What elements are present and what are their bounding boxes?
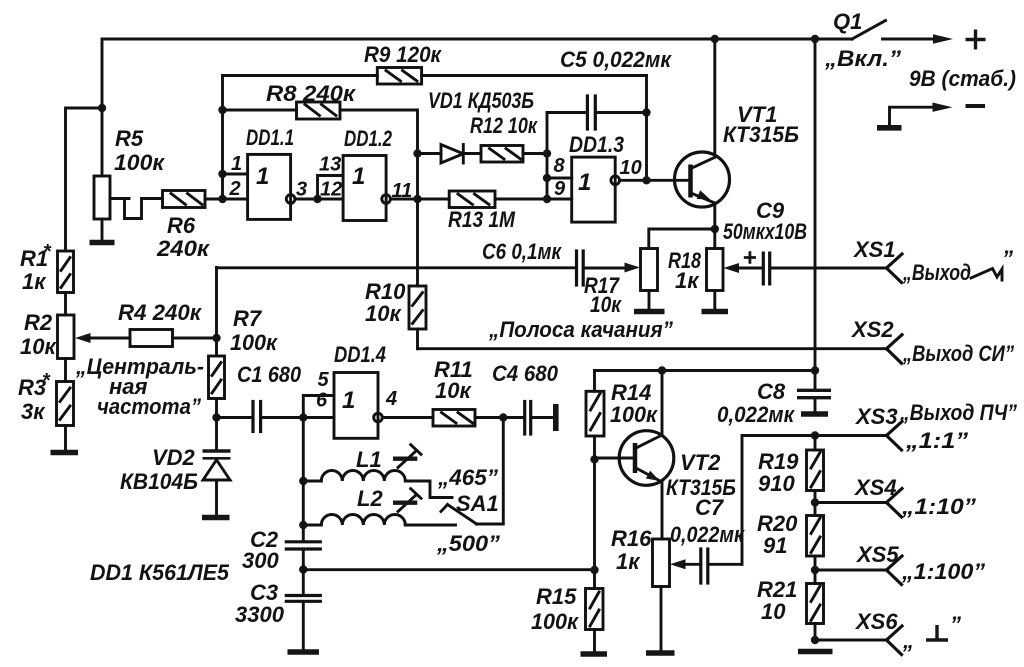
label XS1 xyxy=(852,237,896,262)
svg-text:С5 0,022мк: С5 0,022мк xyxy=(560,47,673,72)
resistor R13 xyxy=(418,191,548,208)
label VT1 xyxy=(723,102,799,147)
ground under R16 xyxy=(646,650,675,656)
node XS4 xyxy=(811,498,819,506)
svg-text:13: 13 xyxy=(319,154,341,176)
node R4/R7 xyxy=(212,334,220,342)
node VT1 emitter xyxy=(711,225,719,233)
svg-text:9В (стаб.): 9В (стаб.) xyxy=(909,66,1016,91)
ground under R18 xyxy=(702,309,729,315)
svg-text:5: 5 xyxy=(318,369,330,391)
wire R9/C5 drop to base xyxy=(645,76,648,181)
svg-text:R4 240к: R4 240к xyxy=(118,300,203,325)
svg-text:10к: 10к xyxy=(20,334,57,359)
node L2 xyxy=(299,521,307,529)
label gate2 symbol xyxy=(352,163,365,190)
label DD1 К561ЛЕ5 xyxy=(90,560,230,585)
wire varicap bus xyxy=(215,268,218,357)
svg-text:XS6: XS6 xyxy=(854,609,898,634)
node VD1 junction xyxy=(413,149,421,157)
svg-text:9: 9 xyxy=(554,178,566,200)
label VT2 xyxy=(666,450,736,500)
label R10 xyxy=(365,279,406,326)
pin 10 xyxy=(620,157,642,179)
svg-text:VD1 КД503Б: VD1 КД503Б xyxy=(428,88,534,113)
svg-text:6: 6 xyxy=(316,390,328,412)
wire top +9V rail xyxy=(102,38,852,41)
label R7 xyxy=(230,306,279,355)
label R3* 3к xyxy=(18,370,51,424)
label R13 1М xyxy=(448,207,516,232)
svg-text:10к: 10к xyxy=(590,292,623,317)
ground C4 side bar xyxy=(553,404,559,431)
transistor VT1 xyxy=(675,39,730,229)
node rail drop / R5 xyxy=(98,104,106,112)
label R4 240к xyxy=(118,300,203,325)
switch Q1 xyxy=(852,21,886,40)
label XS3 xyxy=(854,404,898,429)
svg-text:1: 1 xyxy=(256,163,269,190)
trimmer arrow L1 xyxy=(393,445,421,468)
label C1 680 xyxy=(237,362,302,387)
wire XS6 stub xyxy=(815,639,887,642)
svg-text:С8: С8 xyxy=(757,379,786,404)
svg-text:*: * xyxy=(43,241,52,263)
wire DD1.4 input bracket xyxy=(303,396,334,418)
node R12 in xyxy=(543,149,551,157)
svg-text:DD1.1: DD1.1 xyxy=(246,125,294,150)
potentiometer R16 xyxy=(653,539,670,651)
capacitor C3 xyxy=(286,570,320,651)
node pin2/R6 xyxy=(218,195,226,203)
svg-text:R2: R2 xyxy=(24,310,53,335)
node C2/C3 xyxy=(299,565,307,573)
label C4 680 xyxy=(492,361,559,386)
wire C6 line xyxy=(217,266,575,269)
label R1* 1к xyxy=(20,241,52,294)
resistor R19 xyxy=(807,436,824,503)
node VT2 collector top xyxy=(658,366,666,374)
gate DD1.4 xyxy=(334,373,433,439)
pin 8 xyxy=(554,155,566,177)
label 1:10 xyxy=(901,494,976,519)
svg-text:R5: R5 xyxy=(115,126,144,151)
label Q1 xyxy=(833,9,862,34)
capacitor C2 xyxy=(286,418,320,569)
label Выход СИ xyxy=(902,341,1014,366)
svg-text:11: 11 xyxy=(392,180,413,202)
node C1/VD2 xyxy=(212,413,220,421)
pin 1 xyxy=(231,153,242,175)
svg-text:DD1 К561ЛЕ5: DD1 К561ЛЕ5 xyxy=(90,560,230,585)
potentiometer R17 xyxy=(641,249,658,310)
node attenuator top xyxy=(811,431,819,439)
label ground quote xyxy=(902,612,961,653)
svg-text:”: ” xyxy=(1002,246,1013,271)
label C2 300 xyxy=(242,527,279,573)
wire +9V drop right xyxy=(814,39,817,371)
inductor L2 xyxy=(303,515,455,526)
resistor R12 xyxy=(481,146,547,163)
wire pin9 xyxy=(547,198,572,201)
capacitor C6 xyxy=(577,251,627,285)
svg-text:DD1.3: DD1.3 xyxy=(569,132,624,157)
resistor R8 xyxy=(223,102,418,199)
svg-text:КТ315Б: КТ315Б xyxy=(723,122,799,147)
inductor L1 xyxy=(303,471,452,498)
resistor R14 xyxy=(586,371,604,460)
svg-text:10: 10 xyxy=(761,599,786,624)
svg-text:1: 1 xyxy=(352,163,365,190)
node C5 out xyxy=(642,108,650,116)
wire R5 wiper jog xyxy=(110,199,163,219)
connector XS2 xyxy=(887,335,903,364)
wire tank tap to R15 xyxy=(303,568,594,571)
svg-text:L2: L2 xyxy=(357,486,383,511)
wire XS5 stub xyxy=(815,569,887,572)
transistor VT2 xyxy=(595,371,674,540)
label Выход ПЧ xyxy=(899,400,1017,425)
svg-text:”: ” xyxy=(950,612,961,637)
pin 3 xyxy=(296,179,307,201)
label R2 10к xyxy=(20,310,57,359)
svg-text:100к: 100к xyxy=(610,402,659,427)
label 1:1 xyxy=(905,428,968,453)
label 465 xyxy=(437,465,498,490)
resistor R5 xyxy=(94,108,110,240)
svg-text:1к: 1к xyxy=(616,549,641,574)
label L1 xyxy=(356,447,382,472)
svg-text:R7: R7 xyxy=(233,306,263,331)
switch SA1 xyxy=(441,418,503,525)
svg-text:10к: 10к xyxy=(365,301,402,326)
label R9 120к xyxy=(364,42,443,67)
label Центральная частота xyxy=(75,354,204,419)
svg-text:1к: 1к xyxy=(22,269,47,294)
connector XS3 xyxy=(887,422,903,451)
gate DD1.1 xyxy=(223,154,318,219)
svg-text:4: 4 xyxy=(385,388,397,410)
svg-text:DD1.2: DD1.2 xyxy=(344,126,393,151)
svg-text:„: „ xyxy=(902,628,914,653)
label R6 xyxy=(156,213,211,261)
gate DD1.2 xyxy=(343,156,417,221)
label L2 xyxy=(357,486,383,511)
resistor R15 xyxy=(586,589,604,653)
label XS4 xyxy=(853,475,897,500)
resistor R10 xyxy=(409,199,426,349)
resistor R21 xyxy=(807,570,824,640)
node rail right xyxy=(811,35,819,43)
capacitor C1 xyxy=(217,402,304,432)
svg-text:XS3: XS3 xyxy=(854,404,898,429)
svg-text:С4 680: С4 680 xyxy=(492,361,559,386)
svg-text:VD2: VD2 xyxy=(152,445,196,470)
svg-text:„1:100”: „1:100” xyxy=(901,559,985,584)
label VD1 КД503Б xyxy=(428,88,534,113)
svg-text:10к: 10к xyxy=(435,378,472,403)
svg-text:1: 1 xyxy=(342,387,355,414)
diode VD2 varicap xyxy=(203,451,231,515)
svg-text:VT2: VT2 xyxy=(680,450,721,475)
node XS6 xyxy=(811,636,819,644)
connector XS5 xyxy=(887,556,903,585)
svg-text:DD1.4: DD1.4 xyxy=(334,342,386,367)
label R16 xyxy=(611,526,652,574)
node XS5 xyxy=(811,566,819,574)
label R21 10 xyxy=(757,577,797,624)
svg-text:2: 2 xyxy=(229,178,241,200)
label VD2 КВ104Б xyxy=(120,445,198,494)
wire bus to DD1.1 inputs xyxy=(221,76,224,200)
label DD1.4 xyxy=(334,342,386,367)
svg-text:С6 0,1мк: С6 0,1мк xyxy=(482,239,563,264)
svg-text:300: 300 xyxy=(242,548,279,573)
svg-text:1: 1 xyxy=(578,169,591,196)
pin 12 xyxy=(320,179,342,201)
svg-text:3: 3 xyxy=(296,179,307,201)
svg-text:R16: R16 xyxy=(611,526,652,551)
wire DD1.3 input bus xyxy=(546,113,549,200)
node tank tap xyxy=(590,566,598,574)
svg-text:100к: 100к xyxy=(230,330,279,355)
label DD1.1 xyxy=(246,125,294,150)
svg-text:3к: 3к xyxy=(21,399,46,424)
pin 2 xyxy=(229,178,241,200)
svg-text:1к: 1к xyxy=(675,268,700,293)
arrow R18 wiper xyxy=(724,263,740,273)
gate DD1.3 xyxy=(572,157,689,222)
connector XS4 xyxy=(887,489,903,518)
svg-text:С1 680: С1 680 xyxy=(237,362,302,387)
capacitor C9 xyxy=(737,251,887,285)
label gate1 symbol xyxy=(256,163,269,190)
resistor R6 xyxy=(163,191,223,208)
ground under R15 xyxy=(581,651,608,657)
label R15 xyxy=(531,584,580,634)
label C5 0,022мк xyxy=(560,47,673,72)
capacitor C7 xyxy=(684,549,743,583)
label C9 50мкх10В xyxy=(723,198,807,244)
svg-text:10: 10 xyxy=(620,157,642,179)
resistor R11 xyxy=(433,410,503,427)
svg-text:3300: 3300 xyxy=(235,602,285,627)
svg-text:„500”: „500” xyxy=(436,531,500,556)
label C8 0,022мк xyxy=(717,379,796,427)
svg-text:0,022мк: 0,022мк xyxy=(717,402,796,427)
node pin9 xyxy=(543,195,551,203)
svg-text:XS1: XS1 xyxy=(852,237,896,262)
svg-text:R9 120к: R9 120к xyxy=(364,42,443,67)
svg-text:Q1: Q1 xyxy=(833,9,862,34)
label XS5 xyxy=(855,542,899,567)
node VT2 base xyxy=(590,455,598,463)
pin 5 xyxy=(318,369,330,391)
wire XS3 stub xyxy=(815,434,887,437)
ground under R5 xyxy=(90,240,115,246)
svg-text:R8 240к: R8 240к xyxy=(266,81,357,106)
wire pin8 xyxy=(547,177,572,180)
label R14 xyxy=(610,380,659,427)
svg-text:„1:10”: „1:10” xyxy=(901,494,976,519)
resistor R20 xyxy=(807,503,824,571)
svg-text:XS5: XS5 xyxy=(855,542,899,567)
resistor R1 xyxy=(58,251,74,315)
svg-text:SA1: SA1 xyxy=(456,491,499,516)
potentiometer R18 xyxy=(707,229,724,309)
svg-text:R15: R15 xyxy=(536,584,577,609)
label C7 0,022мк xyxy=(670,495,746,547)
label R11 10к xyxy=(434,357,473,403)
svg-text:910: 910 xyxy=(758,471,795,496)
svg-text:R12 10к: R12 10к xyxy=(470,113,539,138)
label C3 3300 xyxy=(235,580,285,627)
svg-text:100к: 100к xyxy=(531,609,580,634)
node pin8 xyxy=(543,174,551,182)
potentiometer R2 arrow from R4 xyxy=(75,333,130,343)
node R8 tap xyxy=(218,106,226,114)
node base VT1 xyxy=(642,176,650,184)
svg-text:240к: 240к xyxy=(156,236,211,261)
arrow plus output xyxy=(883,30,986,50)
svg-text:„Выход СИ”: „Выход СИ” xyxy=(902,341,1014,366)
node VT1 collector rail xyxy=(711,35,719,43)
label R8 240к xyxy=(266,81,357,106)
label C6 0,1мк xyxy=(482,239,563,264)
label Полоса качания xyxy=(488,317,673,342)
resistor R7 xyxy=(209,356,225,448)
resistor R4 xyxy=(130,330,217,347)
label XS2 xyxy=(850,317,894,342)
svg-text:„Выход ПЧ”: „Выход ПЧ” xyxy=(899,400,1017,425)
connector XS6 xyxy=(887,626,903,655)
svg-text:R6: R6 xyxy=(167,213,196,238)
svg-text:„Вкл.”: „Вкл.” xyxy=(824,46,901,71)
node C8 top xyxy=(811,366,819,374)
arrow R17 wiper xyxy=(625,263,641,273)
label R17 xyxy=(584,273,623,317)
wire DD1.2 input bracket xyxy=(318,176,344,200)
node DD1.4 in xyxy=(299,413,307,421)
svg-text:С7: С7 xyxy=(695,495,725,520)
wire emitter to R17 xyxy=(649,229,715,249)
pin 13 xyxy=(319,154,341,176)
svg-text:1: 1 xyxy=(231,153,242,175)
arrow minus output with ground xyxy=(877,103,985,128)
label gate3 symbol xyxy=(578,169,591,196)
trimmer arrow L2 xyxy=(393,489,421,512)
label gate4 symbol xyxy=(342,387,355,414)
svg-text:„1:1”: „1:1” xyxy=(905,428,968,453)
svg-text:R13 1М: R13 1М xyxy=(448,207,516,232)
pin 9 xyxy=(554,178,566,200)
pin 6 xyxy=(316,390,328,412)
label XS6 xyxy=(854,609,898,634)
ground under C8 xyxy=(801,411,828,417)
capacitor C4 xyxy=(503,402,551,435)
ground under VD2 xyxy=(202,515,230,521)
node out3 xyxy=(313,195,321,203)
arrow R16 wiper xyxy=(670,559,686,569)
svg-text:50мкx10В: 50мкx10В xyxy=(723,219,807,244)
wire XS2 line xyxy=(418,347,887,350)
capacitor C8 xyxy=(797,371,831,412)
pin 4 xyxy=(385,388,397,410)
svg-text:„465”: „465” xyxy=(437,465,498,490)
label R12 10к xyxy=(470,113,539,138)
label R20 91 xyxy=(757,511,798,558)
label 1:100 xyxy=(901,559,985,584)
svg-text:8: 8 xyxy=(554,155,566,177)
wire base bus down xyxy=(593,459,596,588)
wire VT2 supply line xyxy=(595,369,816,372)
svg-text:„Выход: „Выход xyxy=(902,260,971,285)
ground under R17 xyxy=(634,309,665,315)
capacitor C5 xyxy=(547,96,647,129)
svg-text:XS2: XS2 xyxy=(850,317,894,342)
ground under C3 xyxy=(288,649,320,655)
label Выход ~ xyxy=(902,246,1013,285)
ground under attenuator xyxy=(798,649,833,655)
svg-text:XS4: XS4 xyxy=(853,475,897,500)
label DD1.2 xyxy=(344,126,393,151)
svg-text:91: 91 xyxy=(763,533,787,558)
label 9В стаб xyxy=(909,66,1016,91)
potentiometer R2 xyxy=(58,315,75,382)
svg-text:L1: L1 xyxy=(356,447,382,472)
svg-text:частота”: частота” xyxy=(97,394,201,419)
wire XS4 stub xyxy=(815,501,887,504)
label R19 910 xyxy=(758,449,799,496)
label Вкл xyxy=(824,46,901,71)
label DD1.3 xyxy=(569,132,624,157)
svg-text:„Полоса качания”: „Полоса качания” xyxy=(488,317,673,342)
node out11 xyxy=(413,195,421,203)
resistor R3 xyxy=(57,382,74,451)
label SA1 xyxy=(456,491,499,516)
svg-text:12: 12 xyxy=(320,179,342,201)
node R11/C4/SA1 xyxy=(499,413,507,421)
node pin1 xyxy=(218,170,226,178)
svg-text:0,022мк: 0,022мк xyxy=(670,522,746,547)
wire C7 riser to XS3 line xyxy=(742,436,815,565)
ground under R3 xyxy=(51,450,79,456)
resistor R9 xyxy=(223,68,647,85)
label R18 xyxy=(668,248,702,293)
connector XS1 xyxy=(887,254,903,283)
pin 11 xyxy=(392,180,413,202)
diode VD1 xyxy=(418,145,482,164)
svg-text:*: * xyxy=(42,370,51,392)
label R5 xyxy=(114,126,166,175)
svg-text:КВ104Б: КВ104Б xyxy=(120,469,198,494)
svg-text:100к: 100к xyxy=(114,150,166,175)
node L1 xyxy=(299,477,307,485)
label 500 xyxy=(436,531,500,556)
wire left rail drop xyxy=(66,39,103,251)
